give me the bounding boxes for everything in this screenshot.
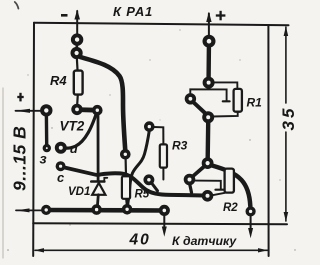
svg-text:R3: R3 bbox=[172, 139, 188, 153]
svg-text:40: 40 bbox=[129, 232, 151, 249]
svg-text:К датчику: К датчику bbox=[172, 234, 237, 248]
svg-text:К РА1: К РА1 bbox=[113, 4, 153, 19]
svg-text:R5: R5 bbox=[135, 189, 150, 201]
svg-text:VT2: VT2 bbox=[60, 119, 85, 134]
svg-text:R1: R1 bbox=[247, 96, 263, 110]
svg-text:и: и bbox=[70, 141, 78, 156]
svg-text:R4: R4 bbox=[50, 73, 67, 88]
svg-text:VD1: VD1 bbox=[68, 186, 90, 198]
svg-text:з: з bbox=[40, 151, 47, 167]
svg-text:R2: R2 bbox=[223, 202, 238, 214]
svg-text:9...15 В: 9...15 В bbox=[10, 126, 30, 191]
svg-text:35: 35 bbox=[279, 106, 298, 131]
svg-text:с: с bbox=[57, 170, 65, 185]
